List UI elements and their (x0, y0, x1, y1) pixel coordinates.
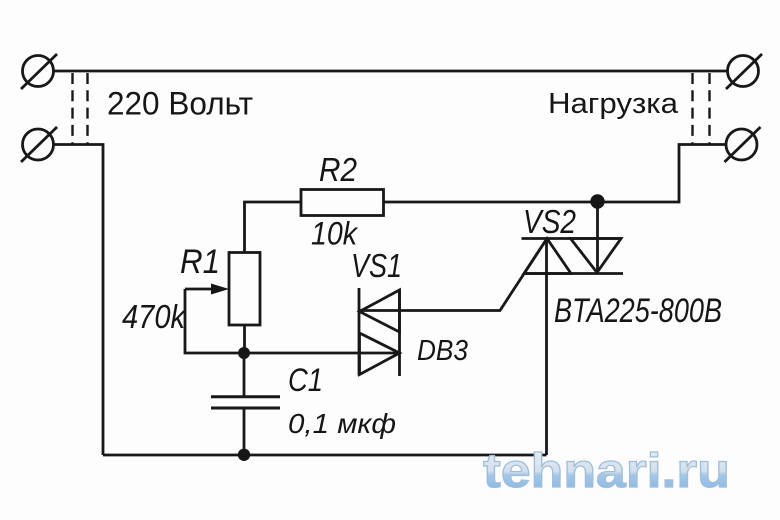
connector dashed lines left (73, 73, 88, 144)
svg-text:BTA225-800B: BTA225-800B (554, 292, 722, 330)
svg-text:VS2: VS2 (523, 203, 576, 240)
watermark tehnari.ru (483, 445, 730, 498)
wire from bottom-right socket down to R2 output net (384, 145, 727, 203)
node junction triac/load (590, 194, 604, 208)
label 470k value of R1 (122, 298, 186, 335)
label R2 (319, 151, 357, 188)
terminal socket pin top-right (726, 54, 762, 89)
node junction R1/C1/diac (238, 347, 250, 359)
potentiometer R1 wiper arrow (185, 284, 238, 354)
terminal plug pin bottom-left (21, 127, 57, 162)
terminal socket pin bottom-right (725, 127, 761, 162)
label BTA225-800B value of VS2 (554, 292, 722, 330)
resistor R2 (301, 190, 384, 216)
wire triac A1 lead down to bottom rail (545, 239, 548, 456)
wire from R2 left to R1 top (245, 202, 302, 253)
capacitor C1 (211, 353, 280, 455)
svg-text:0,1 мкф: 0,1 мкф (288, 408, 396, 439)
node junction C1 to bottom rail (238, 449, 250, 461)
svg-text:C1: C1 (288, 362, 323, 398)
label DB3 value of VS1 (417, 335, 468, 367)
svg-text:220 Вольт: 220 Вольт (107, 85, 253, 121)
connector dashed lines right (693, 73, 710, 144)
wire bottom rail (103, 454, 547, 457)
wire R1 bottom lead (243, 325, 246, 353)
wire junction to diac VS1 (244, 352, 400, 355)
svg-text:470k: 470k (122, 298, 186, 335)
wire from bottom-left plug to left vertical (54, 145, 103, 456)
svg-text:R2: R2 (319, 151, 357, 188)
terminal plug pin top-left (21, 54, 57, 89)
potentiometer R1 body (229, 253, 260, 326)
svg-text:10k: 10k (311, 215, 359, 251)
diac VS1 (359, 288, 400, 376)
label 10k value of R2 (311, 215, 359, 251)
wire triac A2 lead to top node (596, 202, 599, 273)
svg-text:tehnari.ru: tehnari.ru (483, 445, 730, 498)
label Нагрузка (548, 88, 679, 120)
svg-text:Нагрузка: Нагрузка (548, 88, 679, 120)
label R1 (180, 243, 220, 281)
svg-text:VS1: VS1 (351, 247, 402, 284)
label VS1 (351, 247, 402, 284)
label VS2 (523, 203, 576, 240)
wire diac gate output to triac gate (360, 239, 548, 311)
svg-text:DB3: DB3 (417, 335, 468, 367)
triac VS2 (522, 239, 624, 274)
label C1 (288, 362, 323, 398)
svg-text:R1: R1 (180, 243, 220, 281)
label 220 Вольт (107, 85, 253, 121)
wire top rail from left plug to right socket (54, 70, 727, 73)
label 0,1 мкф value of C1 (288, 408, 396, 439)
